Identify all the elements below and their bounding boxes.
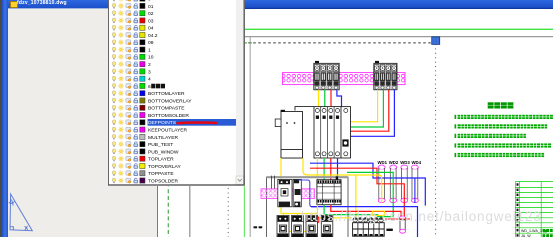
layer row MULTILAYER (112, 134, 178, 141)
wire L1 yellow (318, 90, 320, 107)
gray paper top line (244, 36, 553, 38)
svg-text:2: 2 (148, 62, 151, 68)
svg-text:BOTTOMPASTE: BOTTOMPASTE (148, 106, 185, 112)
layer row PUB_TEST (112, 141, 173, 148)
contactor left tab (275, 119, 281, 127)
svg-text:JA_W: JA_W (521, 234, 531, 237)
selection grip (blue square) (432, 37, 440, 45)
selected dashed rectangle left edge (227, 43, 229, 237)
selected dashed rectangle top edge (228, 42, 432, 44)
svg-text:WD4: WD4 (412, 160, 422, 165)
wire red lower (331, 205, 401, 216)
svg-text:01: 01 (148, 4, 154, 10)
selected dashed rectangle green overlap start (245, 42, 252, 44)
note line 1 (0, 0, 1, 1)
layer row 0 (112, 0, 151, 3)
svg-text:TOPLAYER: TOPLAYER (148, 157, 174, 163)
main window title bar (right) (158, 0, 553, 9)
svg-text:6: 6 (148, 84, 151, 90)
svg-text:PUB_WINDW: PUB_WINDW (148, 149, 179, 155)
relay QM4 (321, 216, 333, 238)
layer row TOPOVERLAY (112, 163, 181, 170)
contactor body (281, 112, 303, 159)
tech note line 5 (455, 153, 545, 157)
layer row 6wenzi (112, 83, 165, 90)
layer row 09 (112, 39, 154, 46)
relay KA1 (278, 179, 292, 206)
layer row 03 (112, 18, 154, 25)
terminal circles row (353, 218, 357, 222)
triangle main outline (9, 194, 33, 231)
svg-text:WD2: WD2 (389, 160, 399, 165)
layer row 04 (112, 25, 154, 32)
pole top terminals (315, 109, 319, 113)
green dashed inner frame left line (167, 60, 169, 237)
wire green feed (347, 172, 393, 216)
wire yellow drop mid (355, 175, 357, 217)
cable WD5 small (400, 216, 406, 233)
app frame dark outer edge (0, 0, 2, 237)
cable WD3 (401, 165, 408, 202)
wire green pole2 down (323, 158, 325, 180)
layer row BOTTOMPASTE (112, 105, 185, 112)
wire yellow QF2 (350, 90, 378, 122)
svg-text:04.2: 04.2 (148, 33, 158, 39)
layer row BOTTOMOVERLAY (112, 98, 192, 105)
wire blue pole4 down (337, 158, 339, 180)
wire green QF2 (347, 90, 383, 127)
table left column marks (517, 183, 519, 236)
cable WD1 (378, 165, 385, 202)
terminal strip XT1 magenta hatched bar (283, 73, 406, 85)
dropdown panel background (108, 0, 245, 186)
wire yellow hook WD1 (372, 211, 384, 215)
wire green box marker (295, 217, 302, 222)
svg-text:MULTILAYER: MULTILAYER (148, 135, 178, 141)
contactor bottom band (281, 150, 303, 159)
left child window gray client area (8, 0, 158, 237)
coil column (341, 107, 351, 158)
contactor top-left mark (281, 110, 285, 112)
svg-text:03: 03 (148, 18, 154, 24)
title bar filename text (17, 0, 107, 7)
enclosure outline (267, 177, 349, 237)
wire green lower (324, 205, 393, 217)
layer row PUB_WINDW (112, 149, 179, 156)
selected dashed rectangle right edge (435, 44, 437, 237)
layer row BOTTOMSOLDER (112, 112, 189, 119)
svg-text:09: 09 (148, 40, 154, 46)
green frame left line (243, 184, 245, 237)
red annotation line (177, 121, 216, 124)
layer row TOPSOLDER (112, 178, 178, 185)
layer row TOPLAYER (112, 156, 174, 163)
table bottom row texts (521, 229, 547, 238)
layer row DEFPOINTS (112, 120, 145, 126)
svg-text:04: 04 (148, 26, 154, 32)
black wire pair into enclosure (271, 176, 273, 189)
layer row 04.2 (112, 32, 158, 39)
svg-text:DEFPOINTS: DEFPOINTS (148, 120, 177, 126)
layer row 10 (112, 54, 154, 61)
wire L2 green (324, 90, 326, 107)
svg-text:WD_1-WA_3: WD_1-WA_3 (521, 229, 542, 233)
svg-text:0: 0 (148, 0, 151, 3)
svg-text:KEEPOUTLAYER: KEEPOUTLAYER (148, 127, 188, 133)
contactor dots (286, 122, 288, 124)
tech note line 3 (455, 134, 526, 138)
layer row BOTTOMLAYER (112, 90, 185, 97)
svg-text:3: 3 (148, 69, 151, 75)
wire red box marker (310, 217, 318, 223)
svg-text:02: 02 (148, 11, 154, 17)
scrollbar down button (236, 176, 244, 185)
wire blue QF2 (339, 90, 394, 137)
svg-text:10: 10 (148, 55, 154, 61)
cable WD2 (390, 165, 397, 202)
svg-text:1: 1 (148, 47, 151, 53)
svg-text:TOPSOLDER: TOPSOLDER (148, 178, 179, 184)
svg-text:WD1: WD1 (378, 160, 388, 165)
wire yellow lower (317, 205, 352, 218)
paper edge vertical gray line (249, 37, 251, 237)
wire L3 red (330, 90, 332, 107)
wire blue lower (311, 207, 418, 237)
layer row TOPPASTE (112, 170, 174, 177)
pole bottom terminals (315, 152, 319, 156)
layer row 2 (112, 61, 151, 68)
relay QM2 (292, 216, 304, 238)
heading jishu yaoqiu (488, 102, 514, 108)
tech note line 4 (455, 143, 552, 147)
wire yellow feed (303, 158, 382, 203)
layer row 02 (112, 10, 154, 17)
right-angle square marker (10, 227, 13, 230)
contactor pole section (314, 107, 341, 158)
strip right black mark (386, 229, 392, 231)
svg-text:WD3: WD3 (400, 160, 410, 165)
contactor top step (295, 107, 314, 111)
layer row 3 (112, 69, 151, 76)
green frame top line (244, 28, 553, 30)
svg-text:BOTTOMOVERLAY: BOTTOMOVERLAY (148, 98, 192, 104)
layer row 01 (112, 3, 154, 10)
terminal strip XT2 magenta hatched bar (261, 189, 315, 199)
wire N blue (337, 90, 342, 107)
wire blue branch to WD4 (414, 178, 416, 203)
dropdown borders (108, 0, 244, 185)
wire red pole3 down (330, 158, 332, 180)
left child window title bar (8, 0, 158, 9)
layer row KEEPOUTLAYER (112, 127, 187, 134)
relay QM1 (277, 216, 289, 238)
cable WD4 (412, 165, 419, 202)
svg-text:BOTTOMSOLDER: BOTTOMSOLDER (148, 113, 189, 119)
layer row 4 (112, 76, 151, 83)
wire yellow relay drops (283, 214, 285, 218)
coil aux block (342, 139, 348, 146)
breaker group QF2 (374, 61, 397, 90)
relay QM3 (306, 216, 318, 238)
main drawing canvas (white) (158, 0, 553, 237)
svg-text:PUB_TEST: PUB_TEST (148, 142, 173, 148)
wire red hook extra (385, 218, 410, 220)
tech note line 1 (455, 115, 553, 119)
layer row 1 (112, 47, 151, 54)
wire blue feed (310, 163, 425, 205)
left window right border (157, 0, 159, 237)
app frame blue strip (2, 0, 8, 237)
annotation black dash (254, 226, 258, 228)
relay KA2 with blue box (293, 179, 318, 206)
wire red QF2 (342, 90, 389, 131)
svg-text:4: 4 (148, 77, 151, 83)
title bar folder icon (10, 1, 18, 9)
gray inner vertical line (189, 60, 191, 237)
wire yellow pole1 down (316, 158, 318, 180)
DEFPOINTS highlight (147, 119, 235, 126)
wire yellow loop left (281, 158, 317, 214)
svg-text:TOPOVERLAY: TOPOVERLAY (148, 164, 181, 170)
svg-text:BOTTOMLAYER: BOTTOMLAYER (148, 91, 185, 97)
breaker group QF1 (314, 61, 339, 90)
scrollbar track (236, 0, 244, 186)
wire red feed (310, 168, 404, 216)
hypotenuse tick mark (25, 226, 28, 230)
terminal strip body grid (353, 223, 385, 237)
tech note line 2 (455, 124, 548, 128)
pole middle marks (316, 116, 319, 119)
svg-text:TOPPASTE: TOPPASTE (148, 171, 174, 177)
angle arc near apex (9, 202, 15, 204)
